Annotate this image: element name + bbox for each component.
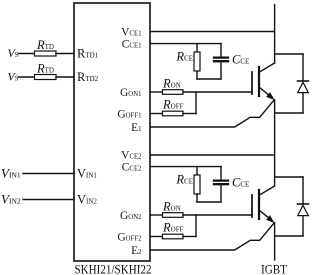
wire ROFF2 join vertical bbox=[195, 215, 197, 237]
wire ROFF1 to join bbox=[183, 113, 196, 115]
svg-text:ROFF: ROFF bbox=[162, 221, 184, 235]
svg-text:RCE: RCE bbox=[175, 50, 193, 64]
svg-text:ROFF: ROFF bbox=[162, 98, 184, 112]
wire collector vertical top bbox=[274, 5, 276, 64]
resistor RON1 bbox=[163, 90, 184, 95]
wire VIN1 to pin bbox=[23, 173, 74, 175]
pin CCE2 label bbox=[122, 161, 142, 173]
wire GOFF2 bbox=[150, 236, 163, 238]
resistor RCE2 bbox=[196, 167, 198, 175]
wire phase vertical (E1 to C2) bbox=[274, 100, 276, 186]
wire RON2 to gate bbox=[183, 214, 252, 216]
wire diode D1 top branch bbox=[275, 53, 303, 55]
node VS1 label bbox=[8, 46, 19, 60]
wire ROFF2 to join bbox=[183, 236, 196, 238]
transistor IGBT1 emitter arrow bbox=[266, 92, 274, 100]
pin RTD1 label bbox=[77, 46, 99, 60]
wire RTD2 to pin RTD2 bbox=[56, 76, 74, 78]
svg-text:VIN2: VIN2 bbox=[1, 191, 21, 206]
pin E1 label bbox=[131, 122, 141, 134]
pin VIN1 label bbox=[77, 166, 97, 180]
wire E2 zigzag bbox=[150, 223, 274, 250]
svg-text:SKHI21/SKHI22: SKHI21/SKHI22 bbox=[75, 262, 152, 275]
pin VIN2 label bbox=[77, 192, 97, 206]
wire GON2 bbox=[150, 214, 163, 216]
transistor IGBT1 gate bar bbox=[251, 72, 253, 94]
wire diode D2 top branch bbox=[275, 176, 303, 178]
svg-text:RCE: RCE bbox=[175, 173, 193, 187]
wire RTD1 to pin RTD1 bbox=[56, 53, 74, 55]
pin GOFF2 label bbox=[117, 231, 142, 243]
resistor RON2 bbox=[163, 213, 184, 218]
pin GON2 label bbox=[120, 210, 142, 222]
wire E1 zigzag bbox=[150, 100, 274, 127]
node VS2 label bbox=[8, 69, 19, 83]
transistor IGBT1 emitter diagonal bbox=[259, 87, 272, 98]
transistor IGBT2 collector diagonal bbox=[259, 186, 275, 195]
transistor IGBT1 collector diagonal bbox=[259, 63, 275, 72]
resistor RCE1 bbox=[196, 44, 198, 52]
diode D2 bbox=[302, 177, 304, 204]
svg-text:CCE: CCE bbox=[232, 176, 249, 190]
wire VS1 to RTD1 bbox=[19, 53, 35, 55]
pin GOFF1 label bbox=[117, 108, 141, 120]
pin GON1 label bbox=[120, 87, 142, 99]
capacitor CCE2 bbox=[220, 167, 222, 180]
transistor IGBT2 emitter arrow bbox=[266, 215, 274, 223]
svg-text:VIN1: VIN1 bbox=[1, 165, 21, 180]
wire VIN2 to pin bbox=[23, 199, 74, 201]
pin CCE1 label bbox=[122, 38, 142, 50]
wire GON1 bbox=[150, 91, 163, 93]
wire diode D2 bottom branch bbox=[275, 235, 303, 237]
wire VCE1 to collector bbox=[150, 31, 275, 33]
pin VCE2 label bbox=[121, 150, 142, 162]
capacitor CCE1 bbox=[220, 44, 222, 57]
resistor ROFF2 bbox=[163, 234, 184, 239]
resistor RTD1 bbox=[35, 51, 57, 56]
svg-text:VS: VS bbox=[8, 46, 19, 60]
pin RTD2 label bbox=[77, 70, 99, 84]
wire RON1 to gate bbox=[183, 91, 252, 93]
svg-text:RTD: RTD bbox=[36, 38, 54, 52]
resistor ROFF1 bbox=[163, 111, 184, 116]
op-amp U1 driver IC box SKHI21/SKHI22 bbox=[74, 3, 150, 261]
svg-text:RON: RON bbox=[162, 76, 181, 90]
diode D1 bbox=[302, 54, 304, 81]
wire GOFF1 bbox=[150, 113, 163, 115]
wire diode D1 bottom branch bbox=[275, 112, 303, 114]
pin E2 label bbox=[131, 245, 142, 257]
wire emitter2 vertical bottom bbox=[274, 223, 276, 260]
wire VS2 to RTD2 bbox=[19, 76, 35, 78]
wire CCE2 to RC network bbox=[150, 166, 221, 168]
svg-text:VS: VS bbox=[8, 69, 19, 83]
svg-text:RTD: RTD bbox=[36, 62, 54, 76]
wire RC2 bottom rail bbox=[197, 201, 221, 203]
transistor IGBT1 body bar bbox=[258, 67, 260, 96]
wire ROFF1 join vertical bbox=[195, 92, 197, 114]
node VIN2 label bbox=[1, 191, 21, 206]
svg-text:CCE: CCE bbox=[232, 53, 249, 67]
node VIN1 label bbox=[1, 165, 21, 180]
transistor IGBT2 body bar bbox=[258, 190, 260, 219]
transistor IGBT2 gate bar bbox=[251, 195, 253, 217]
label SKHI21/SKHI22 bbox=[75, 262, 152, 275]
resistor RTD2 bbox=[35, 75, 57, 80]
transistor IGBT2 emitter diagonal bbox=[259, 210, 272, 221]
wire VCE2 to phase node bbox=[150, 154, 275, 156]
wire CCE1 to RC network bbox=[150, 43, 221, 45]
label IGBT bbox=[261, 262, 287, 275]
wire RC1 bottom rail bbox=[197, 78, 221, 80]
svg-text:IGBT: IGBT bbox=[261, 262, 287, 275]
pin VCE1 label bbox=[121, 26, 141, 38]
svg-text:RON: RON bbox=[162, 199, 181, 213]
